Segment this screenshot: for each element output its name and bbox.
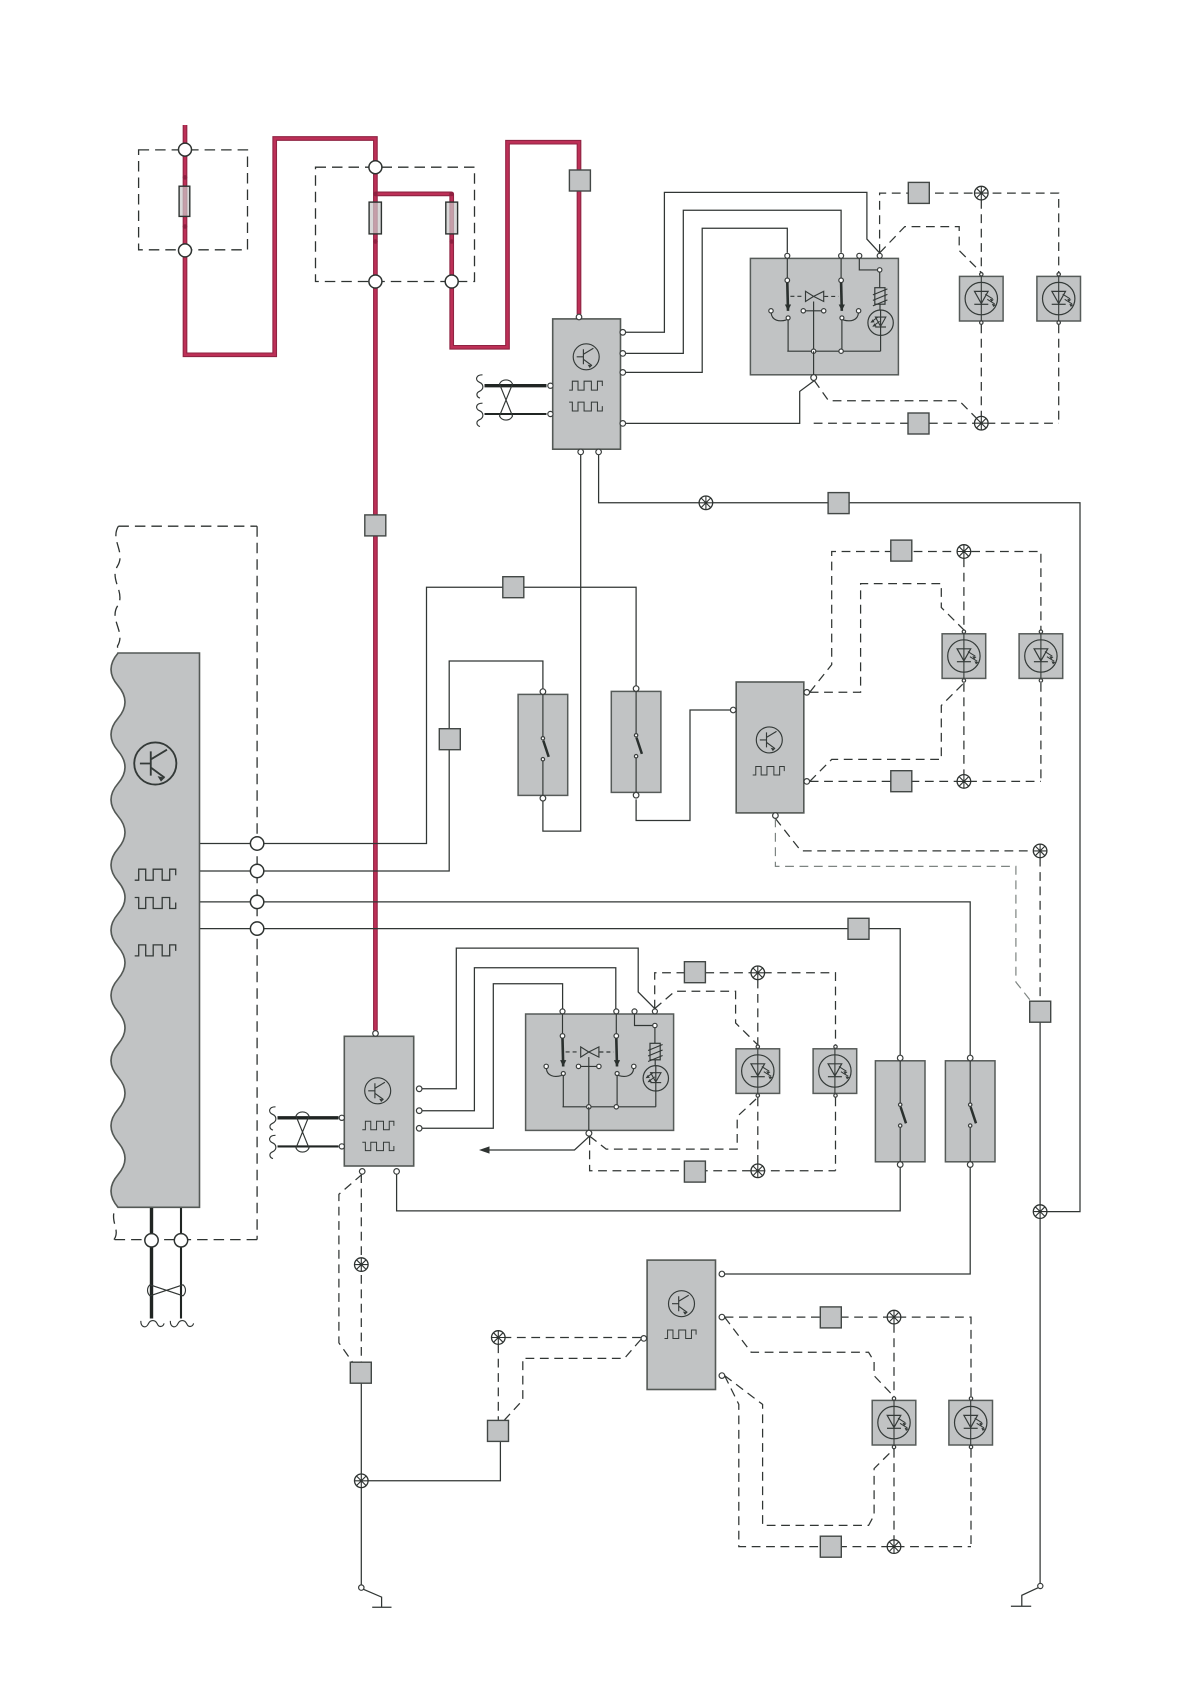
splice X3 — [957, 545, 971, 559]
wire 30-feed top stub to fuse F1 — [183, 125, 188, 144]
module U2 (right middle module) — [736, 682, 804, 813]
connector circle below fuse F2b — [445, 275, 458, 288]
wire splice X10 to connector C12 — [497, 1344, 499, 1420]
twisted pair at U1 left: wire a (thick) — [485, 384, 547, 387]
lamp LA pins — [962, 630, 965, 633]
lamp LB — [1019, 634, 1063, 679]
wire through fuse F1 — [183, 156, 188, 244]
lamp LD — [813, 1049, 857, 1094]
twist symbol at U3 — [296, 1112, 309, 1152]
U2 left pin — [730, 707, 736, 713]
wire U4 pin2 to lamp LF top (dashed row 4 top) — [725, 1317, 971, 1397]
wire K2 junction to lamp LD top (dashed row 3 top) — [655, 973, 836, 1045]
fusebox 2 dashed outline — [316, 167, 475, 281]
splice X6 — [751, 1164, 765, 1178]
wire U0 pin C to switch S4 top — [200, 902, 971, 1055]
U1 right pins 1-4 — [620, 330, 626, 336]
connector C10 on right ground branch — [1030, 1001, 1051, 1022]
connector circle above fuse F1 — [179, 143, 192, 156]
wire switch S4 bottom to module U4 pin1 — [725, 1167, 971, 1274]
wire K1 junction to lamp L2 top (dashed row 1 top) — [880, 193, 1059, 272]
splice X5 — [751, 966, 765, 980]
harness boundary box around U0 (top edge) — [118, 525, 257, 527]
twisted pair at U1 left: wire b — [485, 413, 547, 415]
wire splice X7 to lamp LE top — [893, 1324, 895, 1397]
connector circle below fuse F1 — [179, 244, 192, 257]
U3 left pins — [339, 1115, 344, 1120]
connector C12 on U4 ground branch — [488, 1420, 509, 1441]
wire U0 pin A to switch S2 top — [200, 587, 637, 843]
U4 left pin — [641, 1336, 647, 1342]
arrowhead — [479, 1146, 490, 1153]
relay K1 (flasher relay top) — [750, 253, 898, 380]
U0 waveform glyph 3 — [135, 945, 176, 956]
wire U0 pin B to switch S1 top — [200, 661, 543, 871]
cable-end squiggle U0 b — [170, 1321, 193, 1327]
wire U4 left pin to splice X10 — [498, 1337, 641, 1339]
junction dot F2a — [373, 192, 378, 197]
U3 transistor symbol — [365, 1078, 391, 1104]
wire U3 pin3 to relay K2 switch1 — [422, 984, 562, 1129]
wire splice X9 down to connector C10 — [1039, 858, 1041, 1001]
connector on wire U0-A — [503, 577, 524, 598]
U1 bottom pins — [578, 449, 584, 455]
wire U3 pin2 to relay K2 switch2 — [422, 968, 616, 1111]
wire U1 pin3 to relay K1 switch1 — [622, 228, 787, 372]
U3 top pin — [373, 1031, 379, 1037]
dot below fuse F1 — [183, 224, 188, 229]
switch S1 — [518, 689, 568, 801]
connector circle U0 bottom a — [145, 1234, 158, 1247]
connector circle U0 bottom b — [174, 1234, 187, 1247]
junction dot F2b — [449, 192, 454, 197]
harness boundary box around U0 (bottom edge) — [114, 1239, 257, 1241]
wire lamp LF bottom to dashed row 4 bottom — [970, 1449, 972, 1547]
harness boundary box around U0 (right edge) — [256, 526, 258, 1239]
wire fuse F1 to fusebox 2 input — [185, 139, 375, 355]
splice X12 ground junction right — [1033, 1205, 1047, 1219]
wire K2 junction to lamp LC top (inner) — [655, 991, 758, 1045]
lamp LE — [872, 1400, 916, 1445]
module U4 (bottom module) — [647, 1260, 715, 1389]
module U3 (lower left control module) — [344, 1036, 413, 1166]
lamp LF pins — [969, 1397, 972, 1400]
connector on dashed row 1 bottom — [908, 413, 929, 434]
splice X10 — [492, 1331, 506, 1345]
wire U2 bottom pin to splice X9 — [775, 819, 1033, 851]
twist symbol below U0 — [148, 1285, 186, 1296]
wire lamp LC bottom to splice X6 — [757, 1097, 759, 1164]
U2 bottom pin — [773, 813, 779, 819]
twisted pair below U0: wire b — [180, 1208, 182, 1319]
wire lamp L2 bottom to dashed row 1 bottom — [1058, 324, 1060, 423]
wire through fuse F2a — [373, 174, 378, 276]
wire U3 bottom pin1 to connector C11 (left route) — [339, 1174, 362, 1362]
cable-end squiggle U1 a — [477, 375, 483, 398]
harness boundary wavy top-left segment — [115, 526, 120, 653]
fuse F2a body — [369, 202, 381, 234]
lamp L2 pins — [1057, 273, 1060, 276]
connector C11 on left ground branch — [350, 1362, 371, 1383]
U2 transistor symbol — [756, 727, 782, 753]
connector on dashed row 3 bottom — [684, 1161, 705, 1182]
wire U4 left pin to connector C12 (second route) — [505, 1340, 641, 1420]
wire dashed row 2 bottom — [810, 780, 1041, 782]
fuse F1 body — [179, 186, 190, 216]
wire U3 pin1 to relay K2 coil junction — [422, 948, 655, 1089]
lamp LA — [942, 634, 986, 679]
connector circle below fuse F2a — [369, 275, 382, 288]
dot above fuse F1 — [183, 175, 188, 180]
U0 waveform glyph 1 — [135, 869, 176, 880]
connector on dashed row 4 top — [820, 1307, 841, 1328]
wire lamp LD bottom to dashed row 3 bottom — [835, 1097, 837, 1170]
lamp LD pins — [834, 1045, 837, 1048]
wire U2 pin1 to lamp LA top (inner) — [810, 584, 964, 693]
wire fuse F2a to module U3 (long feed) — [373, 288, 378, 1031]
U0 waveform glyph 2 — [135, 898, 176, 909]
splice X1 — [975, 186, 989, 200]
wire connector C11 to ground G1 — [360, 1383, 362, 1585]
lamp LC — [736, 1049, 780, 1094]
connector circle fusebox2 input — [369, 161, 382, 174]
connector on dashed row 4 bottom — [820, 1536, 841, 1557]
U1 left pins — [548, 383, 553, 388]
U1 transistor symbol — [573, 344, 599, 370]
ground G1 (bottom left) — [359, 1585, 364, 1590]
wire branch to fuse F2b — [375, 192, 451, 197]
splice X2 — [975, 416, 989, 430]
splice X11 — [355, 1258, 369, 1272]
fuse F2b body — [446, 202, 458, 234]
relay K2 (flasher relay bottom) — [526, 1009, 674, 1136]
lamp LB pins — [1039, 630, 1042, 633]
connector on dashed row 3 top — [684, 962, 705, 983]
wire K2 bottom to lamp LC bottom (inner) — [590, 1097, 758, 1149]
U1 waveform glyph 2 — [569, 402, 602, 411]
connector circle U0 pin D — [250, 922, 263, 935]
dot below fuse F2a — [373, 239, 378, 244]
wire splice X1 to lamp L1 top — [980, 200, 982, 273]
harness boundary wavy bottom-left segment — [113, 1209, 116, 1240]
twisted pair at U3 left: wire b — [278, 1145, 339, 1147]
wire K2 bottom to dashed row 3 bottom — [590, 1136, 836, 1171]
wire lamp LA bottom to splice X4 — [963, 683, 965, 774]
fusebox F1 dashed outline — [139, 150, 248, 250]
U3 bottom pins — [359, 1169, 365, 1175]
connector on wire U0-B — [439, 729, 460, 750]
lamp L1 pins — [980, 273, 983, 276]
connector circle U0 pin A — [250, 837, 263, 850]
twisted pair below U0: wire a (thick) — [150, 1208, 153, 1319]
switch S2 — [611, 686, 661, 798]
wire U4 pin2 to lamp LE top (inner) — [725, 1317, 894, 1397]
wire U1 pin4 to relay K1 bottom pin — [622, 381, 814, 424]
wire lamp LB bottom to dashed row 2 bottom — [1040, 683, 1042, 781]
ground G2 (bottom right) — [1038, 1583, 1043, 1588]
wire splice X3 to lamp LA top — [963, 558, 965, 630]
wire ground bus left: splice to connector C12 — [361, 1442, 500, 1481]
U2 waveform glyph — [753, 767, 785, 775]
wire U0 pin D to switch S3 top — [200, 929, 901, 1056]
splice X13 ground junction left — [355, 1474, 369, 1488]
wire switch S2 bottom to module U2 left pin — [636, 710, 730, 821]
wire K1 junction to lamp L1 top (inner) — [880, 227, 982, 273]
splice X9 — [1033, 844, 1047, 858]
U2 right pins — [804, 690, 810, 696]
connector on dashed row 1 top — [908, 182, 929, 203]
twisted pair at U3 left: wire a (thick) — [278, 1116, 339, 1119]
U3 waveform glyph 2 — [362, 1142, 394, 1150]
wire splice X5 to lamp LC top — [757, 980, 759, 1045]
twist symbol at U1 — [500, 380, 513, 420]
U3 right pins — [416, 1086, 422, 1092]
central electronic module U0 (torn left edge) — [111, 653, 200, 1207]
cable-end squiggle U0 a — [141, 1321, 164, 1327]
wire lamp LE bottom to splice X8 — [893, 1449, 895, 1540]
wire U1 pin1 to relay K1 coil junction — [622, 192, 880, 332]
U1 waveform glyph 1 — [569, 381, 602, 390]
connector circle U0 pin B — [250, 864, 263, 877]
wire U1 pin2 to relay K1 switch2 — [622, 210, 841, 353]
splice X8 — [887, 1540, 901, 1554]
wire U4 pin3 to lamp LE bottom (inner) — [725, 1376, 894, 1526]
wire through fuse F2b — [449, 194, 454, 275]
splice X0 on ground run — [699, 496, 713, 510]
splice X7 — [887, 1310, 901, 1324]
wire lamp L1 bottom to splice X2 — [980, 324, 982, 423]
lamp LC pins — [756, 1045, 759, 1048]
U4 right pins — [719, 1271, 725, 1277]
module U1 (top control module) — [553, 319, 621, 449]
connector on wire U0-D — [848, 918, 869, 939]
connector on red feed to U3 — [365, 515, 386, 536]
U4 transistor symbol — [669, 1291, 695, 1317]
connector on red feed to U1 — [569, 170, 590, 191]
lamp LF — [949, 1400, 993, 1445]
wire connector C10 down to splice — [1039, 1022, 1041, 1211]
wire fuse F2b to module U1 — [452, 142, 579, 347]
wire U1 bottom pin1 to switch S1 bottom — [543, 454, 581, 831]
wire U4 pin3 to dashed row 4 bottom — [725, 1376, 971, 1547]
wire switch S3 bottom to module U3 bottom pin2 — [397, 1167, 901, 1211]
wire relay K2 bottom to turn-signal stalk (arrow) — [489, 1136, 590, 1150]
connector on ground run wire — [828, 493, 849, 514]
connector on dashed row 2 bottom — [891, 771, 912, 792]
wire dashed row 1 bottom — [814, 422, 1059, 424]
dot below fuse F2b — [449, 239, 454, 244]
wire U3 bottom pin1 to connector C11 (straight, through splice X11) — [360, 1174, 362, 1362]
wire K1 bottom to lamp L1 bottom (inner) — [814, 381, 978, 421]
switch S3 — [875, 1055, 925, 1167]
cable-end squiggle U3 a — [270, 1107, 276, 1130]
U3 waveform glyph 1 — [362, 1121, 394, 1129]
wire U2 pin1 to lamp LB top (dashed row 2 top) — [810, 552, 1041, 693]
wire U1 bottom pin2 to right-side ground run — [599, 454, 1080, 1211]
lamp L1 (front left indicator) — [960, 276, 1004, 321]
U1 top pin — [576, 314, 582, 320]
lamp LE pins — [892, 1397, 895, 1400]
U0 transistor symbol — [134, 742, 176, 784]
splice X4 — [957, 775, 971, 789]
switch S4 — [945, 1055, 995, 1167]
cable-end squiggle U3 b — [270, 1135, 276, 1158]
connector circle U0 pin C — [250, 895, 263, 908]
wire U2 pin2 to lamp LA bottom (inner) — [810, 683, 964, 781]
wire U2 bottom pin to connector C10 (second, faint) — [775, 819, 1031, 1002]
lamp L2 (rear left indicator) — [1037, 276, 1081, 321]
cable-end squiggle U1 b — [477, 403, 483, 426]
connector on dashed row 2 top — [891, 540, 912, 561]
U4 waveform glyph — [665, 1330, 697, 1338]
wire ground run splice to ground G2 — [1039, 1212, 1041, 1584]
